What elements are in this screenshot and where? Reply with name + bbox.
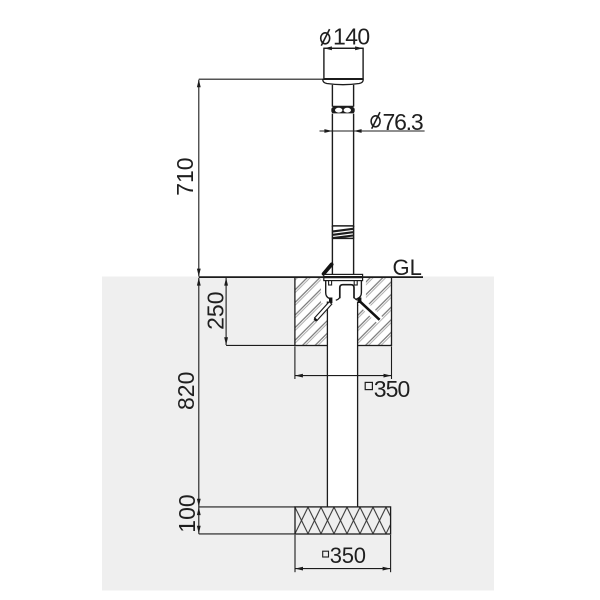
phi140 right arrow: [355, 46, 363, 50]
sleeve column left line: [326, 302, 328, 507]
label phi140: [321, 29, 330, 46]
white halo around right anchor rod: [360, 301, 381, 321]
phi140 left arrow: [324, 46, 332, 50]
plate surface thick line: [324, 276, 363, 278]
crushed stone footing (cross-hatched): [295, 507, 391, 534]
receptacle outer wall left: [326, 281, 331, 300]
phi76.3 right arrow (pointing left): [354, 129, 362, 133]
label square350 upper: [365, 382, 372, 389]
710 top arrow (up): [197, 79, 201, 87]
under-plate bolt left: [329, 281, 332, 285]
bollard cap: [324, 48, 363, 78]
buried sleeve column (white strip through soil): [327, 301, 357, 507]
710 dimension line: [198, 80, 200, 277]
sleeve column right line: [357, 302, 359, 507]
white halo around left anchor rod: [315, 302, 330, 320]
anchor lug right (black): [358, 298, 361, 304]
GL ground line: [199, 276, 423, 278]
phi76.3 left arrow (pointing right): [324, 129, 332, 133]
lower sq350 left arrow: [295, 567, 303, 571]
lower sq350 extension right: [390, 535, 392, 572]
upper sq350 dimension line: [295, 375, 392, 377]
lower sq350 extension left: [294, 535, 296, 572]
cavity bottom flare right: [354, 298, 358, 301]
svg-text:140: 140: [333, 24, 370, 50]
anchor rod left (outlined): [314, 302, 332, 322]
white clearance around receptacle inside block: [321, 278, 366, 303]
footing bottom extension: [199, 533, 295, 535]
lifted lid handle (black): [324, 264, 332, 273]
svg-text:350: 350: [330, 543, 366, 568]
underground gray background: [102, 277, 494, 591]
footing top extension: [199, 506, 295, 508]
svg-text:250: 250: [203, 292, 229, 330]
svg-text:GL: GL: [393, 255, 422, 280]
under-plate bolt right: [354, 281, 357, 285]
anchor lug left (black): [329, 298, 332, 304]
upper sq350 extension right: [391, 346, 393, 379]
threaded coupling band: [332, 226, 354, 239]
cap flange: [323, 79, 363, 84]
100 bottom arrow (down): [197, 526, 201, 534]
phi140 dimension line: [324, 47, 363, 49]
lower sq350 dimension line: [295, 568, 391, 570]
receptacle outer wall right: [356, 281, 361, 300]
upper sq350 right arrow: [384, 374, 392, 378]
phi76.3 dimension line: [320, 130, 425, 132]
250 dimension line: [225, 278, 227, 345]
arrowheads: [197, 46, 392, 570]
post shaft middle section: [331, 114, 333, 227]
socket cavity: [340, 285, 354, 299]
710 bottom arrow (down): [197, 269, 201, 277]
label square350 lower: [323, 551, 329, 557]
lower sq350 right arrow: [383, 567, 391, 571]
svg-text:710: 710: [172, 157, 198, 195]
svg-text:820: 820: [173, 372, 199, 410]
250 bottom arrow (down): [224, 337, 228, 345]
820 top arrow (up): [197, 278, 201, 286]
ball-lock ring with two balls: [331, 106, 354, 113]
cavity bottom flare left: [336, 298, 340, 301]
receptacle top plate: [324, 274, 363, 280]
post shaft upper section: [331, 85, 333, 107]
upper sq350 left arrow: [295, 374, 303, 378]
upper sq350 extension left: [294, 346, 296, 379]
100 top arrow (up): [197, 507, 201, 515]
foundation concrete block (hatched): [295, 277, 392, 345]
250 top arrow (up): [224, 278, 228, 286]
820 bottom arrow (down): [197, 499, 201, 507]
top extension line (cap underside level): [199, 78, 324, 80]
svg-text:76.3: 76.3: [383, 109, 423, 135]
820/100 dimension line: [198, 278, 200, 534]
anchor rod right (solid): [360, 301, 380, 320]
label phi76.3: [371, 112, 380, 129]
block bottom extension line: [226, 344, 295, 346]
svg-text:350: 350: [374, 376, 410, 402]
post shaft lower section: [331, 238, 333, 274]
svg-text:100: 100: [174, 494, 200, 532]
